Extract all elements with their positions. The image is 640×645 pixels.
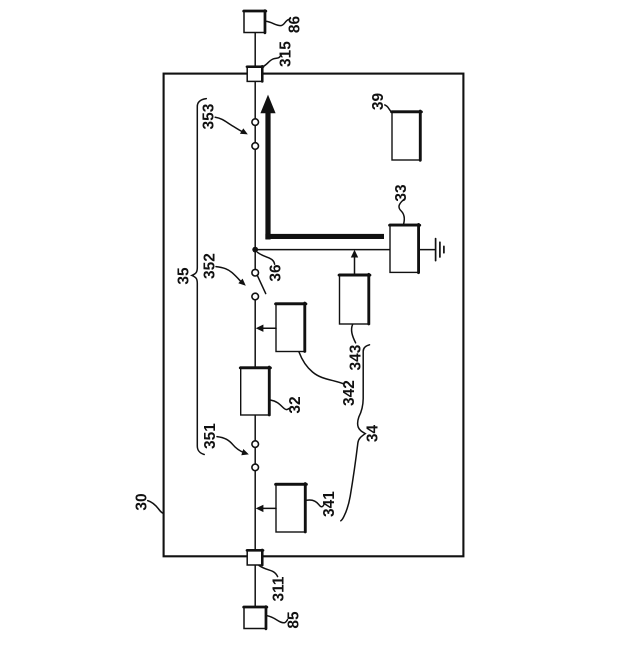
switch 353 contact lower	[252, 143, 259, 150]
wire bus switch 351 to 311	[254, 471, 256, 550]
block 39	[392, 111, 422, 160]
wire bus through switch 353 (closed)	[254, 125, 256, 143]
switch 352 open blade	[257, 275, 266, 293]
leader for 311	[259, 566, 278, 577]
wire bus 315 to switch 353	[254, 81, 256, 119]
leader for 39	[385, 105, 392, 112]
leader for 342	[299, 352, 344, 384]
brace 35 grouping switches	[192, 99, 206, 455]
wire arrow 341 to bus	[256, 505, 276, 512]
leader for 85	[267, 616, 287, 623]
svg-text:86: 86	[287, 16, 304, 34]
block 33	[390, 224, 420, 272]
svg-text:32: 32	[287, 396, 304, 413]
enclosure 30 rectangle	[164, 74, 464, 557]
leader arrow for 351	[217, 437, 249, 456]
leader for 315	[262, 54, 281, 67]
wire bus below switch 352 to block 32	[254, 300, 256, 367]
leader for 341	[306, 500, 324, 507]
block 343	[339, 274, 370, 324]
terminal box 86	[244, 11, 266, 33]
wire arrow 342 to bus	[256, 325, 276, 332]
svg-text:34: 34	[365, 425, 382, 443]
leader for 343	[352, 325, 356, 343]
switch 352 contact lower	[252, 293, 259, 300]
wire node 36 to block 33	[255, 249, 390, 251]
svg-text:315: 315	[278, 41, 295, 67]
svg-text:39: 39	[370, 93, 387, 111]
wire bus block 32 to switch 351	[254, 415, 256, 441]
wire bus 86 to 315	[254, 33, 256, 67]
beam arrow from block 33 (thick L with arrowhead)	[260, 95, 384, 240]
brace 34 grouping 341 342 343	[341, 345, 370, 521]
switch 352 contact upper	[252, 269, 259, 276]
svg-text:30: 30	[134, 493, 151, 510]
connector square 311	[247, 550, 263, 565]
block 341	[276, 484, 307, 533]
wire bus switch 353 to switch 352	[254, 149, 256, 269]
block 32	[240, 367, 270, 415]
svg-text:33: 33	[393, 184, 410, 202]
svg-text:35: 35	[176, 267, 193, 285]
wire bus through switch 351 (closed)	[254, 447, 256, 464]
switch 351 contact lower	[252, 464, 259, 471]
svg-text:311: 311	[271, 576, 288, 601]
switch 351 contact upper	[252, 441, 259, 448]
leader for 36	[257, 252, 274, 264]
svg-text:36: 36	[268, 264, 285, 282]
switch 353 contact upper	[252, 119, 259, 126]
leader for 86	[266, 20, 289, 26]
ground symbol	[420, 239, 444, 261]
leader arrow for 353	[215, 117, 248, 134]
leader for 32	[270, 400, 289, 410]
leader arrow for 352	[216, 267, 246, 286]
wire arrow 343 to line 36-33	[351, 250, 358, 274]
leader for 33	[399, 201, 404, 225]
node 36 junction dot	[252, 247, 258, 253]
svg-text:351: 351	[202, 423, 219, 449]
block 342	[276, 303, 307, 352]
terminal box 85	[244, 607, 267, 629]
wire bus 311 to 85	[254, 565, 256, 608]
svg-text:343: 343	[348, 344, 365, 370]
svg-text:353: 353	[201, 103, 218, 129]
leader for 30	[148, 501, 164, 514]
connector square 315	[247, 66, 263, 81]
